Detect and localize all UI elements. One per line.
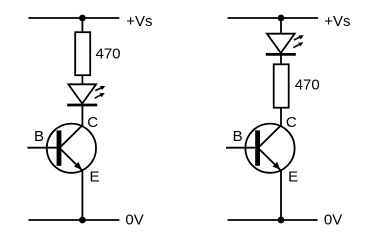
wire emitter to bottom rail [81,171,83,220]
svg-text:B: B [233,128,243,145]
svg-text:E: E [288,168,298,185]
LED D1 left: light arrow 1 [95,86,105,91]
transistor Q1 left: emitter line with arrow [61,150,82,171]
wire bottom 0V rail left [28,219,119,221]
svg-text:0V: 0V [125,212,143,229]
wire resistor to LED [81,75,83,84]
LED D2 right: cathode bar [266,53,296,56]
wire rail to resistor [81,18,83,32]
wire LED to transistor collector [81,105,83,126]
resistor 470 left [75,32,90,75]
transistor Q1 left: base bar [57,130,62,165]
LED D2 right: light arrow 1 [294,35,304,40]
LED D1 left: light arrow 2 [95,93,105,98]
wire emitter to bottom rail right [280,171,282,220]
svg-text:B: B [34,128,44,145]
svg-text:0V: 0V [324,212,342,229]
wire bottom 0V rail right [228,219,318,221]
wire LED to resistor right [280,54,282,64]
LED D1 left: diode triangle [68,84,96,103]
transistor Q2 right: base bar [255,130,260,165]
wire top supply rail left [28,17,119,19]
node junction dot bottom left [79,217,86,224]
node junction dot bottom right [278,217,285,224]
LED D1 left: cathode bar [67,104,97,107]
wire resistor to transistor collector right [280,108,282,126]
svg-text:C: C [87,114,98,131]
svg-text:470: 470 [96,45,121,62]
svg-text:+Vs: +Vs [324,13,350,30]
resistor 470 right [274,64,289,107]
transistor Q2 right: circle [245,124,294,173]
svg-text:E: E [90,168,100,185]
wire base lead right [226,147,255,149]
svg-text:C: C [286,114,297,131]
transistor Q2 right: emitter line with arrow [260,150,281,171]
transistor Q1 left: circle [47,124,96,173]
transistor Q2 right: collector line [260,125,281,146]
LED D2 right: light arrow 2 [293,42,303,47]
wire top supply rail right [228,17,319,19]
transistor Q1 left: collector line [61,125,82,146]
LED D2 right: diode triangle [267,34,295,53]
svg-text:+Vs: +Vs [126,13,152,30]
node junction dot top right [278,15,285,22]
wire base lead left [27,147,56,149]
node junction dot top left [79,15,86,22]
svg-text:470: 470 [295,77,320,94]
wire rail to LED right [280,18,282,34]
